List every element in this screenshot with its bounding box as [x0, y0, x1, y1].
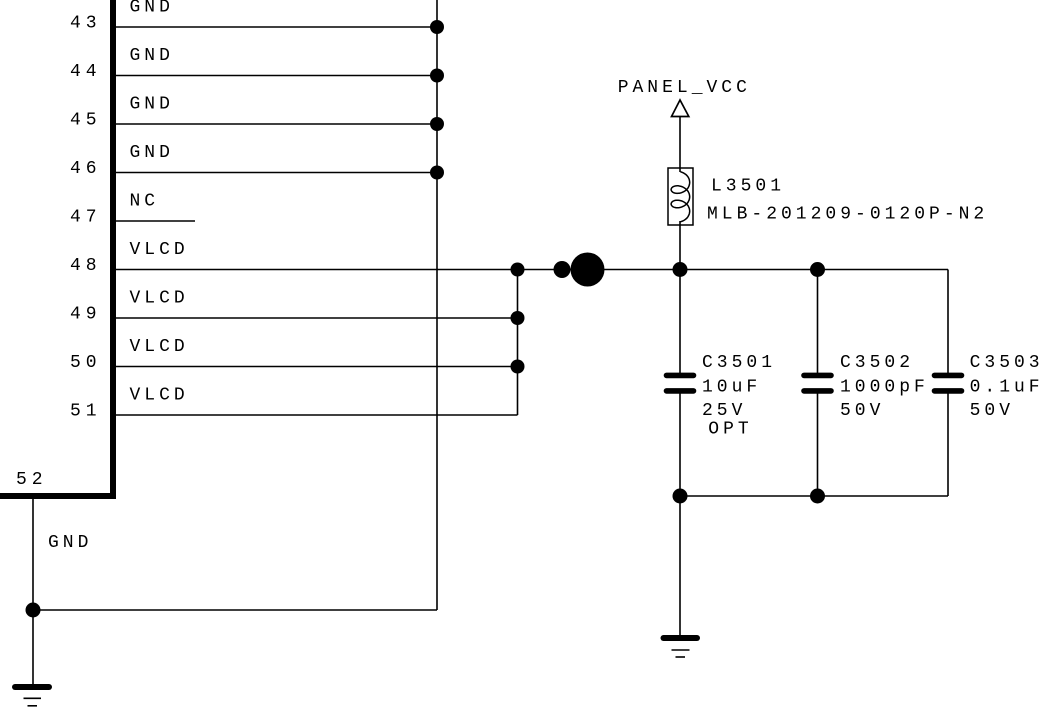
svg-text:L3501: L3501: [711, 177, 785, 197]
capacitor C3503 plates: [935, 375, 962, 391]
svg-text:45: 45: [70, 111, 102, 131]
junction dot C3502 bottom: [810, 489, 825, 504]
svg-text:43: 43: [70, 14, 102, 34]
junction dot pin45/GND bus: [430, 117, 444, 131]
inductor L3501 body: [668, 168, 693, 225]
capacitor C3502 plates: [804, 375, 831, 391]
svg-text:50V: 50V: [970, 401, 1014, 421]
svg-text:VLCD: VLCD: [130, 289, 189, 309]
svg-text:VLCD: VLCD: [130, 386, 189, 406]
junction dot pin43/GND bus: [430, 20, 444, 34]
junction dot pin44/GND bus: [430, 69, 444, 83]
wire C3501 bottom to ground: [679, 496, 681, 638]
junction dot L3501/VLCD net: [673, 262, 688, 277]
svg-text:C3501: C3501: [702, 353, 776, 373]
svg-text:50V: 50V: [840, 401, 884, 421]
GND bus vertical wire: [436, 0, 438, 610]
capacitor C3502 top lead: [817, 270, 819, 374]
capacitor C3501 plates: [667, 375, 694, 391]
svg-text:47: 47: [70, 208, 102, 228]
GND return wire horizontal: [33, 609, 437, 611]
svg-text:44: 44: [70, 62, 102, 82]
junction dot pin52/GND return: [26, 603, 41, 618]
svg-text:GND: GND: [130, 46, 174, 66]
node VLCD small dot: [554, 261, 571, 278]
svg-text:1000pF: 1000pF: [840, 378, 929, 398]
junction dot pin46/GND bus: [430, 166, 444, 180]
svg-text:52: 52: [16, 470, 48, 490]
svg-text:VLCD: VLCD: [130, 337, 189, 357]
power symbol PANEL_VCC arrow: [672, 100, 689, 117]
junction dot C3501 bottom: [673, 489, 688, 504]
svg-text:C3502: C3502: [840, 353, 914, 373]
svg-text:NC: NC: [130, 192, 160, 212]
IC U3501 bottom body edge: [0, 493, 116, 499]
pin 52 lead wire down: [32, 499, 34, 685]
wire L3501 to VLCD net: [679, 221, 681, 270]
capacitor C3503 bottom lead: [947, 393, 949, 496]
svg-text:25V: 25V: [702, 401, 746, 421]
svg-text:GND: GND: [130, 143, 174, 163]
svg-text:C3503: C3503: [970, 353, 1044, 373]
svg-text:GND: GND: [130, 0, 174, 18]
svg-text:MLB-201209-0120P-N2: MLB-201209-0120P-N2: [707, 205, 988, 225]
wire pin 48 VLCD net to C3503 corner: [116, 269, 948, 271]
svg-text:50: 50: [70, 353, 102, 373]
svg-text:49: 49: [70, 305, 102, 325]
svg-text:GND: GND: [130, 95, 174, 115]
wire pin 50 to VLCD bus: [116, 366, 518, 368]
IC U3501 left body edge: [110, 0, 116, 499]
capacitor C3501 top lead: [679, 270, 681, 374]
svg-text:VLCD: VLCD: [130, 240, 189, 260]
wire pin 49 to VLCD bus: [116, 317, 518, 319]
junction dot pin49/VLCD bus: [511, 311, 525, 325]
svg-text:OPT: OPT: [708, 420, 752, 440]
capacitor C3501 bottom lead: [679, 393, 681, 496]
wire pin 44 to GND bus: [116, 75, 437, 77]
svg-text:48: 48: [70, 256, 102, 276]
wire pin 46 to GND bus: [116, 172, 437, 174]
ground symbol right: [664, 638, 698, 657]
svg-text:46: 46: [70, 159, 102, 179]
ground symbol left: [15, 687, 49, 706]
junction dot pin48/VLCD bus: [511, 263, 525, 277]
capacitor C3503 top lead: [947, 270, 949, 374]
capacitor C3502 bottom lead: [817, 393, 819, 496]
junction dot C3502 top: [810, 262, 825, 277]
svg-text:10uF: 10uF: [702, 378, 761, 398]
VLCD bus vertical wire: [517, 270, 519, 416]
svg-text:GND: GND: [48, 533, 92, 553]
svg-text:PANEL_VCC: PANEL_VCC: [618, 78, 751, 98]
capacitor bottom bus wire: [680, 495, 948, 497]
node VLCD large dot: [571, 253, 605, 287]
junction dot pin50/VLCD bus: [511, 360, 525, 374]
svg-text:0.1uF: 0.1uF: [970, 378, 1044, 398]
wire pin 45 to GND bus: [116, 123, 437, 125]
svg-text:51: 51: [70, 402, 102, 422]
wire pin 43 to GND bus: [116, 26, 437, 28]
wire pin 51 to VLCD bus: [116, 414, 518, 416]
wire PANEL_VCC to L3501: [679, 117, 681, 173]
pin 47 NC stub wire: [116, 220, 195, 222]
